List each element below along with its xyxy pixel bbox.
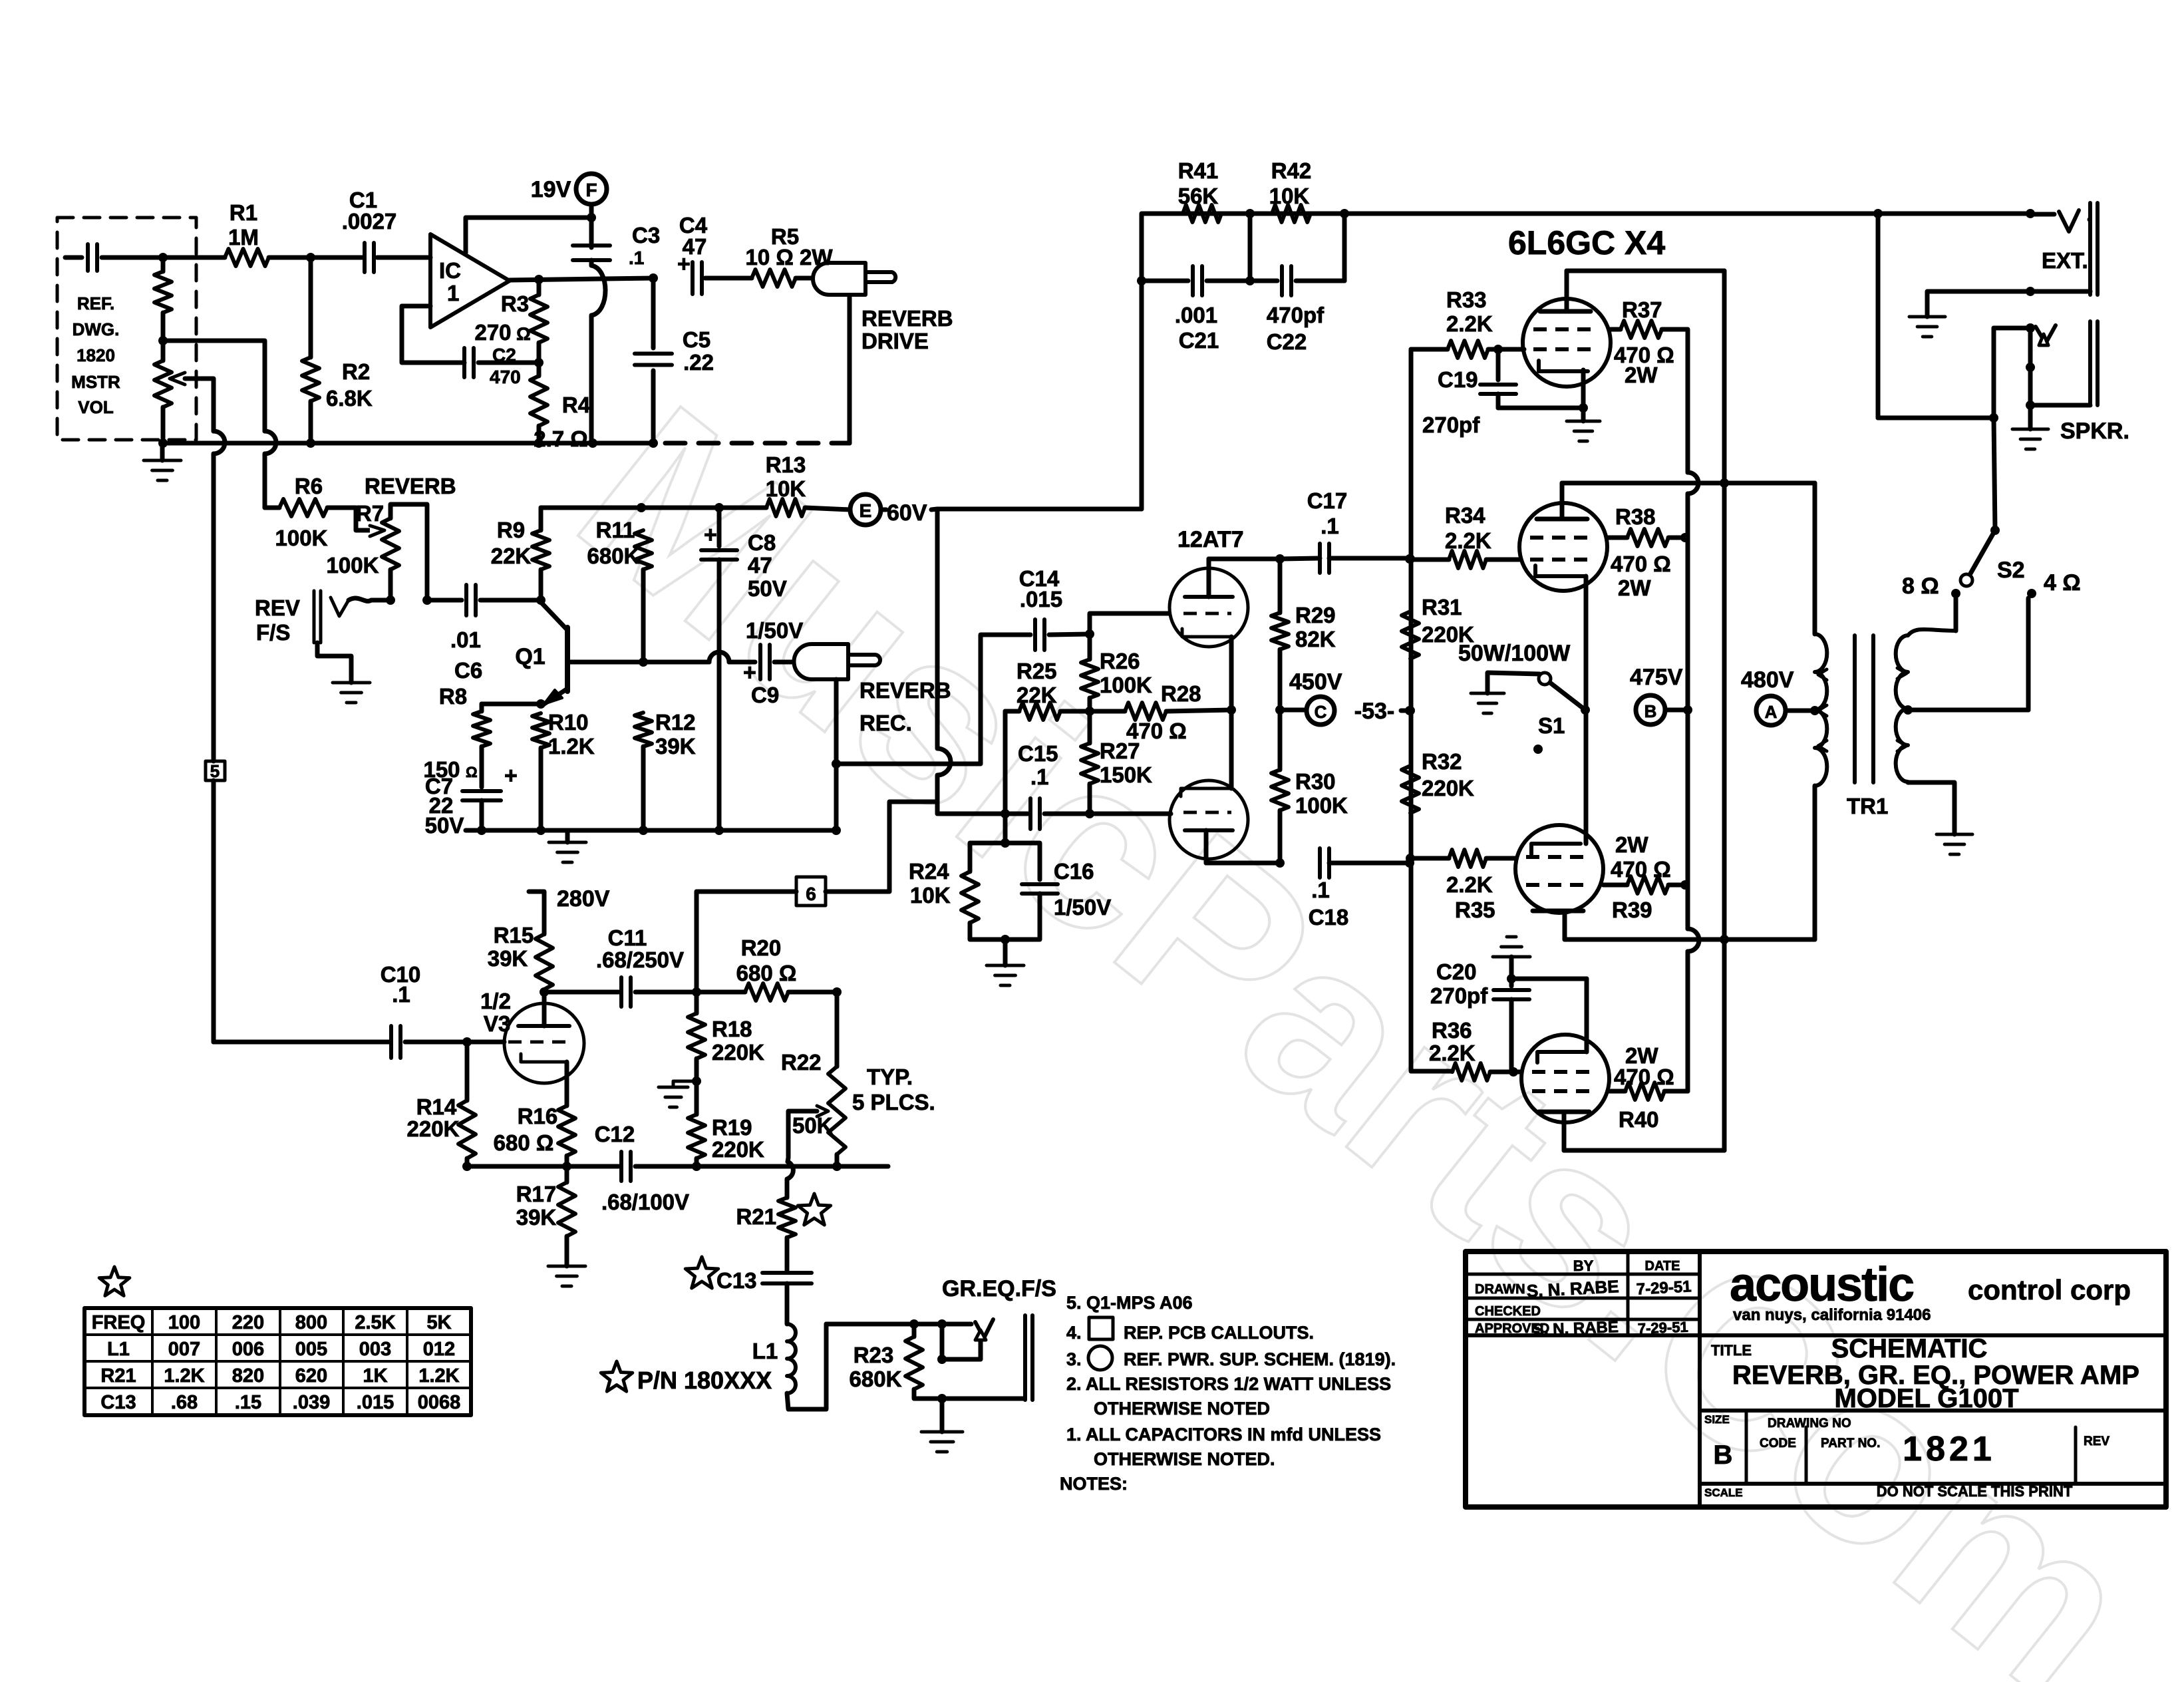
svg-text:OTHERWISE NOTED.: OTHERWISE NOTED. — [1094, 1449, 1275, 1469]
svg-text:L1: L1 — [107, 1339, 130, 1360]
svg-text:2. ALL RESISTORS 1/2 WATT UNLE: 2. ALL RESISTORS 1/2 WATT UNLESS — [1066, 1374, 1391, 1394]
svg-text:1M: 1M — [228, 225, 259, 250]
svg-text:R20: R20 — [741, 935, 782, 960]
svg-text:1/2: 1/2 — [480, 989, 511, 1013]
svg-text:1K: 1K — [363, 1365, 387, 1387]
svg-text:270: 270 — [474, 320, 511, 345]
svg-text:R4: R4 — [562, 393, 591, 417]
svg-text:56K: 56K — [1178, 184, 1219, 208]
svg-text:680 Ω: 680 Ω — [494, 1130, 554, 1155]
svg-text:R22: R22 — [781, 1050, 822, 1075]
svg-text:8 Ω: 8 Ω — [1902, 574, 1939, 599]
svg-text:47: 47 — [748, 553, 772, 578]
svg-text:R26: R26 — [1100, 649, 1140, 673]
svg-text:R39: R39 — [1612, 898, 1652, 922]
svg-text:FREQ: FREQ — [92, 1312, 146, 1333]
svg-text:-53-: -53- — [1354, 699, 1394, 724]
svg-text:R2: R2 — [342, 359, 370, 384]
svg-text:R14: R14 — [416, 1094, 457, 1119]
svg-text:C: C — [1315, 702, 1327, 722]
svg-text:SCHEMATIC: SCHEMATIC — [1831, 1334, 1988, 1363]
svg-text:220K: 220K — [1422, 776, 1474, 800]
svg-text:R16: R16 — [518, 1104, 558, 1128]
svg-text:SPKR.: SPKR. — [2060, 419, 2129, 444]
svg-text:.1: .1 — [629, 248, 644, 268]
svg-text:C6: C6 — [454, 658, 482, 683]
svg-text:CODE: CODE — [1760, 1436, 1796, 1450]
svg-text:R37: R37 — [1622, 297, 1662, 322]
svg-text:470pf: 470pf — [1267, 303, 1325, 327]
svg-text:REC.: REC. — [859, 711, 912, 735]
svg-text:50V: 50V — [425, 813, 464, 838]
svg-text:C15: C15 — [1018, 741, 1058, 766]
svg-text:007: 007 — [168, 1339, 200, 1360]
svg-text:P/N 180XXX: P/N 180XXX — [637, 1367, 772, 1394]
svg-text:EXT.: EXT. — [2042, 248, 2088, 273]
svg-text:.68/250V: .68/250V — [596, 947, 684, 972]
svg-text:39K: 39K — [516, 1205, 557, 1230]
svg-text:100K: 100K — [327, 553, 379, 578]
svg-text:C16: C16 — [1054, 859, 1094, 884]
svg-text:.68/100V: .68/100V — [601, 1190, 689, 1214]
svg-text:DWG.: DWG. — [73, 319, 120, 339]
svg-text:5. Q1-MPS A06: 5. Q1-MPS A06 — [1066, 1293, 1193, 1313]
svg-text:C13: C13 — [100, 1392, 136, 1413]
svg-text:R28: R28 — [1161, 681, 1201, 706]
svg-text:PART NO.: PART NO. — [1821, 1436, 1880, 1450]
svg-text:DO NOT SCALE THIS PRINT: DO NOT SCALE THIS PRINT — [1877, 1483, 2073, 1500]
svg-text:R12: R12 — [655, 710, 696, 735]
svg-text:1.2K: 1.2K — [418, 1365, 459, 1387]
svg-text:10K: 10K — [766, 476, 806, 501]
svg-text:C8: C8 — [748, 530, 776, 555]
svg-text:.1: .1 — [1030, 764, 1049, 789]
svg-text:IC: IC — [439, 258, 461, 283]
svg-text:4 Ω: 4 Ω — [2044, 570, 2081, 595]
svg-text:50K: 50K — [792, 1113, 833, 1138]
svg-text:800: 800 — [295, 1312, 327, 1333]
svg-text:REF.: REF. — [77, 293, 114, 313]
svg-text:470: 470 — [490, 367, 521, 387]
svg-text:19V: 19V — [531, 177, 571, 202]
svg-text:1. ALL CAPACITORS IN mfd UNLES: 1. ALL CAPACITORS IN mfd UNLESS — [1066, 1425, 1381, 1444]
svg-text:.1: .1 — [392, 982, 410, 1007]
svg-text:R31: R31 — [1422, 595, 1462, 619]
svg-text:.015: .015 — [357, 1392, 394, 1413]
svg-text:S. N. RABE: S. N. RABE — [1533, 1318, 1619, 1339]
svg-text:MSTR: MSTR — [71, 372, 120, 392]
svg-text:DATE: DATE — [1645, 1259, 1680, 1273]
svg-text:DRIVE: DRIVE — [861, 329, 929, 353]
svg-text:.15: .15 — [235, 1392, 261, 1413]
svg-text:C11: C11 — [608, 925, 647, 950]
svg-text:0068: 0068 — [418, 1392, 461, 1413]
svg-text:1820: 1820 — [77, 345, 115, 365]
svg-text:C5: C5 — [683, 327, 710, 352]
svg-text:R25: R25 — [1016, 659, 1057, 683]
svg-text:C13: C13 — [716, 1268, 757, 1293]
svg-text:acoustic: acoustic — [1730, 1258, 1913, 1311]
svg-text:5: 5 — [210, 761, 220, 781]
svg-text:2.2K: 2.2K — [1446, 311, 1493, 336]
svg-text:C9: C9 — [751, 683, 779, 707]
svg-text:C12: C12 — [595, 1122, 635, 1146]
svg-text:150K: 150K — [1100, 762, 1152, 787]
svg-text:470 Ω: 470 Ω — [1611, 552, 1671, 576]
svg-text:480V: 480V — [1741, 667, 1794, 693]
svg-text:22K: 22K — [491, 544, 532, 568]
svg-text:C18: C18 — [1309, 905, 1349, 929]
svg-text:F: F — [585, 180, 597, 200]
svg-text:1/50V: 1/50V — [1054, 895, 1111, 920]
svg-text:1: 1 — [447, 281, 459, 305]
svg-text:+: + — [704, 522, 717, 548]
svg-text:B: B — [1644, 701, 1657, 721]
svg-text:.1: .1 — [1321, 514, 1339, 538]
svg-text:REV: REV — [255, 595, 300, 620]
svg-text:.039: .039 — [293, 1392, 330, 1413]
svg-text:2.7 Ω: 2.7 Ω — [534, 426, 588, 451]
svg-text:C22: C22 — [1267, 329, 1307, 354]
svg-text:S1: S1 — [1538, 713, 1565, 738]
svg-text:R42: R42 — [1271, 158, 1312, 183]
svg-text:R21: R21 — [100, 1365, 136, 1387]
svg-text:10K: 10K — [1269, 184, 1310, 208]
svg-text:2W: 2W — [1618, 576, 1651, 600]
svg-text:2.5K: 2.5K — [355, 1312, 395, 1333]
svg-text:100K: 100K — [1295, 793, 1348, 818]
svg-text:R36: R36 — [1432, 1018, 1472, 1043]
svg-text:SCALE: SCALE — [1704, 1486, 1743, 1499]
svg-text:R29: R29 — [1295, 603, 1336, 627]
svg-text:.01: .01 — [450, 627, 481, 652]
svg-text:REF. PWR. SUP. SCHEM. (1819).: REF. PWR. SUP. SCHEM. (1819). — [1124, 1349, 1396, 1369]
svg-text:10 Ω 2W: 10 Ω 2W — [745, 245, 833, 269]
svg-text:R23: R23 — [854, 1343, 894, 1367]
svg-text:470 Ω: 470 Ω — [1614, 1065, 1674, 1089]
svg-text:R7: R7 — [356, 501, 384, 526]
svg-text:.22: .22 — [683, 350, 714, 375]
svg-text:REV: REV — [2084, 1434, 2109, 1448]
svg-text:Ω: Ω — [516, 324, 531, 344]
svg-text:1/50V: 1/50V — [746, 618, 803, 643]
svg-text:DRAWING NO: DRAWING NO — [1768, 1417, 1851, 1430]
svg-text:475V: 475V — [1630, 665, 1683, 690]
svg-text:6: 6 — [806, 884, 816, 904]
svg-text:R13: R13 — [766, 452, 806, 477]
svg-text:5K: 5K — [426, 1312, 451, 1333]
svg-text:R40: R40 — [1619, 1107, 1659, 1132]
svg-text:TITLE: TITLE — [1711, 1342, 1752, 1359]
svg-text:van nuys, california 91406: van nuys, california 91406 — [1733, 1306, 1931, 1324]
svg-text:6L6GC X4: 6L6GC X4 — [1508, 224, 1665, 261]
svg-text:R8: R8 — [439, 684, 467, 709]
svg-text:3.: 3. — [1066, 1349, 1082, 1369]
svg-text:R3: R3 — [501, 291, 529, 316]
svg-text:R1: R1 — [230, 200, 257, 225]
svg-text:220K: 220K — [712, 1137, 764, 1162]
svg-text:GR.EQ.F/S: GR.EQ.F/S — [942, 1276, 1056, 1301]
svg-text:C17: C17 — [1307, 488, 1348, 513]
svg-text:R41: R41 — [1178, 158, 1219, 183]
svg-text:B: B — [1714, 1440, 1733, 1470]
svg-text:REVERB: REVERB — [365, 474, 456, 498]
svg-text:1.2K: 1.2K — [548, 734, 595, 758]
svg-text:L1: L1 — [752, 1339, 778, 1363]
svg-text:R6: R6 — [295, 474, 323, 498]
svg-text:005: 005 — [295, 1339, 327, 1360]
svg-text:Q1: Q1 — [515, 644, 545, 669]
svg-text:4.: 4. — [1066, 1323, 1082, 1343]
svg-text:E: E — [859, 500, 872, 521]
svg-text:006: 006 — [232, 1339, 264, 1360]
svg-text:820: 820 — [232, 1365, 264, 1387]
svg-text:1.2K: 1.2K — [164, 1365, 204, 1387]
svg-text:2.2K: 2.2K — [1445, 528, 1491, 553]
svg-text:R30: R30 — [1295, 769, 1336, 794]
svg-text:R11: R11 — [596, 518, 635, 542]
svg-text:47: 47 — [683, 234, 707, 259]
svg-text:R27: R27 — [1100, 739, 1140, 763]
svg-text:R18: R18 — [712, 1017, 752, 1041]
svg-text:C3: C3 — [632, 223, 660, 248]
svg-text:.1: .1 — [1311, 878, 1330, 902]
svg-text:C19: C19 — [1438, 367, 1478, 392]
svg-text:R38: R38 — [1615, 504, 1656, 529]
svg-text:6.8K: 6.8K — [326, 386, 373, 411]
svg-text:100K: 100K — [1100, 673, 1152, 697]
svg-text:39K: 39K — [488, 946, 528, 971]
svg-text:TYP.: TYP. — [867, 1065, 913, 1089]
svg-text:REVERB: REVERB — [861, 306, 953, 331]
svg-text:270pf: 270pf — [1430, 983, 1488, 1008]
svg-text:60V: 60V — [887, 500, 927, 526]
svg-text:003: 003 — [359, 1339, 391, 1360]
svg-text:220K: 220K — [407, 1116, 460, 1141]
svg-text:1821: 1821 — [1903, 1430, 1996, 1468]
svg-text:R35: R35 — [1455, 898, 1495, 922]
svg-text:+: + — [504, 763, 518, 788]
svg-text:280V: 280V — [557, 886, 610, 912]
svg-text:2W: 2W — [1615, 832, 1648, 857]
svg-text:VOL: VOL — [78, 397, 114, 417]
svg-text:22K: 22K — [1016, 683, 1057, 707]
svg-text:A: A — [1765, 702, 1778, 722]
svg-text:680K: 680K — [587, 544, 640, 568]
svg-text:CHECKED: CHECKED — [1475, 1304, 1541, 1319]
svg-text:680K: 680K — [850, 1367, 902, 1391]
svg-text:BY: BY — [1573, 1258, 1594, 1274]
svg-text:R33: R33 — [1446, 287, 1487, 312]
svg-text:2.2K: 2.2K — [1446, 872, 1493, 897]
svg-text:R34: R34 — [1445, 503, 1485, 528]
svg-text:620: 620 — [295, 1365, 327, 1387]
svg-text:39K: 39K — [655, 734, 696, 758]
svg-text:82K: 82K — [1295, 627, 1336, 651]
svg-text:R21: R21 — [736, 1204, 776, 1229]
svg-text:F/S: F/S — [256, 620, 290, 645]
svg-text:OTHERWISE NOTED: OTHERWISE NOTED — [1094, 1399, 1270, 1419]
svg-text:.0027: .0027 — [342, 209, 397, 234]
svg-text:R15: R15 — [494, 923, 534, 947]
svg-text:DRAWN: DRAWN — [1475, 1282, 1525, 1297]
svg-text:2W: 2W — [1625, 363, 1658, 387]
svg-text:.68: .68 — [171, 1392, 198, 1413]
svg-text:10K: 10K — [910, 883, 951, 908]
svg-text:5 PLCS.: 5 PLCS. — [852, 1090, 935, 1114]
svg-text:12AT7: 12AT7 — [1177, 527, 1244, 552]
svg-text:450V: 450V — [1289, 669, 1342, 695]
svg-text:2.2K: 2.2K — [1429, 1041, 1476, 1065]
svg-text:.001: .001 — [1175, 303, 1217, 327]
svg-text:TR1: TR1 — [1847, 794, 1888, 818]
svg-text:C21: C21 — [1179, 328, 1219, 353]
svg-text:470 Ω: 470 Ω — [1611, 857, 1671, 882]
svg-text:R10: R10 — [548, 710, 589, 735]
svg-text:V3: V3 — [484, 1011, 510, 1036]
svg-text:100: 100 — [168, 1312, 200, 1333]
svg-text:R9: R9 — [497, 518, 525, 542]
svg-text:+: + — [743, 660, 756, 685]
svg-text:100K: 100K — [275, 526, 328, 550]
svg-text:NOTES:: NOTES: — [1060, 1474, 1128, 1494]
svg-text:680 Ω: 680 Ω — [736, 961, 797, 985]
svg-text:Ω: Ω — [466, 764, 478, 780]
svg-text:.015: .015 — [1020, 587, 1062, 611]
svg-text:50W/100W: 50W/100W — [1458, 641, 1571, 666]
svg-text:7-29-51: 7-29-51 — [1636, 1277, 1692, 1298]
svg-text:REP. PCB CALLOUTS.: REP. PCB CALLOUTS. — [1124, 1323, 1314, 1343]
svg-text:SIZE: SIZE — [1704, 1413, 1730, 1426]
svg-text:R17: R17 — [516, 1182, 557, 1206]
svg-text:R24: R24 — [909, 859, 949, 884]
svg-text:R32: R32 — [1422, 749, 1462, 774]
svg-text:C20: C20 — [1436, 959, 1477, 984]
svg-text:220: 220 — [232, 1312, 264, 1333]
svg-text:S2: S2 — [1997, 558, 2025, 583]
svg-text:012: 012 — [423, 1339, 455, 1360]
svg-text:control corp: control corp — [1968, 1274, 2131, 1305]
svg-text:270pf: 270pf — [1422, 413, 1480, 437]
svg-text:50V: 50V — [748, 576, 787, 601]
svg-text:7-29-51: 7-29-51 — [1637, 1319, 1688, 1337]
svg-text:R19: R19 — [712, 1115, 752, 1140]
svg-text:C2: C2 — [492, 345, 516, 365]
svg-text:220K: 220K — [712, 1040, 764, 1065]
